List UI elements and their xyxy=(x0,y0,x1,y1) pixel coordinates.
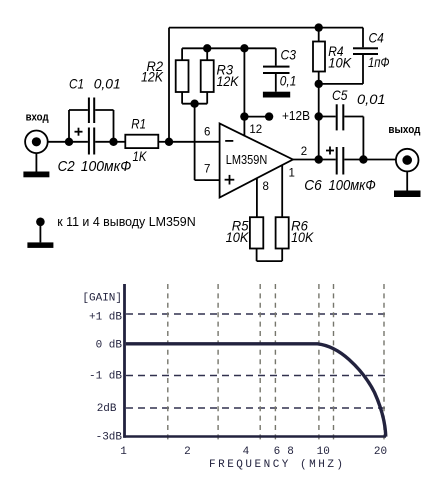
node (+12V right) xyxy=(315,112,323,120)
svg-text:12K: 12K xyxy=(217,73,240,89)
wire pin 1 xyxy=(281,165,283,218)
wire pin 12 riser xyxy=(243,48,245,136)
wire R2R3 bottom to pin 7 xyxy=(194,104,196,180)
wire to R1 xyxy=(114,141,126,143)
svg-text:0 dB: 0 dB xyxy=(96,340,123,352)
svg-text:100мкФ: 100мкФ xyxy=(81,158,132,175)
svg-text:2: 2 xyxy=(184,446,191,458)
svg-text:1: 1 xyxy=(289,168,295,180)
svg-text:10: 10 xyxy=(317,446,330,458)
resistor R5 xyxy=(250,217,263,248)
label R6 10K xyxy=(291,218,314,246)
node (output left) xyxy=(315,155,323,163)
svg-text:вход: вход xyxy=(26,112,49,124)
svg-text:C4: C4 xyxy=(369,30,384,46)
node (supply top) xyxy=(240,44,248,52)
gridline -1dB xyxy=(126,375,387,377)
output connector J2 (выход) xyxy=(396,149,419,172)
vertical gridline 20 xyxy=(383,284,385,441)
svg-text:R1: R1 xyxy=(131,116,146,132)
resistor R1 xyxy=(125,135,158,148)
label R3 12K xyxy=(217,62,240,90)
resistor R6 xyxy=(276,217,289,248)
wire feedback riser and top line xyxy=(169,28,319,142)
wire node A to pin 6 xyxy=(169,141,220,143)
svg-text:10K: 10K xyxy=(291,229,314,245)
ground (output jack) xyxy=(394,171,421,197)
wire jack to node xyxy=(48,141,69,143)
svg-text:1пФ: 1пФ xyxy=(368,54,390,70)
label R5 10K xyxy=(226,218,249,246)
svg-text:8: 8 xyxy=(287,446,294,458)
svg-text:C5: C5 xyxy=(332,87,348,103)
gridline -2dB xyxy=(126,407,387,409)
svg-text:1K: 1K xyxy=(133,148,148,164)
wire to output jack xyxy=(363,159,396,161)
capacitor C4 xyxy=(319,47,378,84)
gridline +1dB xyxy=(126,313,387,315)
svg-text:[GAIN]: [GAIN] xyxy=(82,293,122,305)
vertical gridline 4 xyxy=(217,284,219,441)
wire R2 top to R3 top xyxy=(182,48,207,60)
input connector J1 (вход) xyxy=(25,131,48,154)
wire R4 node down to output node xyxy=(318,84,320,160)
graph y-axis xyxy=(123,284,126,438)
svg-text:6: 6 xyxy=(204,127,210,139)
svg-text:0,01: 0,01 xyxy=(94,76,121,92)
wire R1 to node A xyxy=(158,141,169,143)
node (C1/C2 right) xyxy=(109,138,117,146)
wire R2 R3 bottom bracket xyxy=(182,92,207,104)
wire top rail to pin12 node xyxy=(207,47,244,49)
svg-text:FREQUENCY (MHZ): FREQUENCY (MHZ) xyxy=(209,459,346,471)
node (output right) xyxy=(359,155,367,163)
svg-text:0,1: 0,1 xyxy=(280,73,297,89)
label R2 12K xyxy=(141,58,164,85)
node (R2R3 bottom) xyxy=(190,100,198,108)
wire pin 8 xyxy=(256,178,258,218)
ground (input jack) xyxy=(23,153,49,177)
svg-text:C3: C3 xyxy=(281,47,297,63)
svg-text:20: 20 xyxy=(374,446,387,458)
svg-text:12K: 12K xyxy=(141,69,164,85)
svg-text:2dB: 2dB xyxy=(97,403,117,415)
vertical gridline 10 xyxy=(318,284,320,441)
capacitor C1 xyxy=(88,98,114,142)
resistor R4 xyxy=(313,28,325,84)
capacitor C5 xyxy=(336,104,364,159)
svg-text:10K: 10K xyxy=(328,55,351,71)
svg-text:C1: C1 xyxy=(69,76,84,92)
vertical gridline 2 xyxy=(167,284,169,441)
ground (C3) xyxy=(263,92,290,98)
wire +12V stub xyxy=(244,116,269,118)
node (C1/C2 left) xyxy=(65,138,73,146)
node A (pin 6 net) xyxy=(165,138,173,146)
capacitor C2 xyxy=(69,128,114,155)
vertical gridline 8 xyxy=(274,284,276,441)
resistor R2 xyxy=(176,60,189,92)
svg-text:1: 1 xyxy=(120,446,127,458)
resistor R3 xyxy=(201,60,214,92)
response curve xyxy=(126,344,386,437)
svg-text:0,01: 0,01 xyxy=(357,91,386,107)
svg-text:2: 2 xyxy=(301,146,307,158)
wire pin 7 xyxy=(195,179,220,181)
svg-text:6: 6 xyxy=(274,446,281,458)
svg-text:-3dB: -3dB xyxy=(96,432,123,444)
svg-text:C6: C6 xyxy=(304,177,322,194)
capacitor C3 xyxy=(263,66,290,92)
svg-text:100мкФ: 100мкФ xyxy=(329,177,376,194)
wire R5 R6 bottom bracket xyxy=(257,249,283,262)
label R4 10K xyxy=(328,43,351,71)
vertical gridline 6 xyxy=(259,284,261,441)
svg-text:-1 dB: -1 dB xyxy=(89,371,122,383)
ground (to pins 11 and 4) xyxy=(27,218,53,248)
node (+12V left) xyxy=(240,112,248,120)
svg-text:7: 7 xyxy=(204,163,210,175)
svg-text:10K: 10K xyxy=(226,229,249,245)
svg-text:12: 12 xyxy=(249,124,262,136)
op-amp U1 LM359N xyxy=(220,124,293,198)
wire top line to C4 xyxy=(319,28,363,48)
graph x-axis xyxy=(123,435,386,438)
node (feedback top right) xyxy=(315,23,323,31)
svg-text:8: 8 xyxy=(263,181,269,193)
wire to C5 xyxy=(319,116,336,118)
wire to C3 xyxy=(244,48,275,65)
svg-text:C2: C2 xyxy=(58,158,76,175)
vertical gridline 12 xyxy=(333,284,335,441)
node (R4 C4 bottom) xyxy=(315,80,323,88)
svg-text:выход: выход xyxy=(388,124,420,136)
svg-text:LM359N: LM359N xyxy=(226,153,267,167)
terminal dot +12V xyxy=(265,112,273,120)
svg-text:4: 4 xyxy=(243,446,250,458)
capacitor C6 xyxy=(319,147,364,175)
wire C1 upper branch left xyxy=(69,110,88,142)
svg-text:+1 dB: +1 dB xyxy=(89,312,122,324)
node (R3 top) xyxy=(203,44,211,52)
wire output pin 2 xyxy=(293,159,319,161)
svg-text:к 11 и 4 выводу LM359N: к 11 и 4 выводу LM359N xyxy=(57,215,196,229)
svg-text:+12В: +12В xyxy=(282,109,310,123)
